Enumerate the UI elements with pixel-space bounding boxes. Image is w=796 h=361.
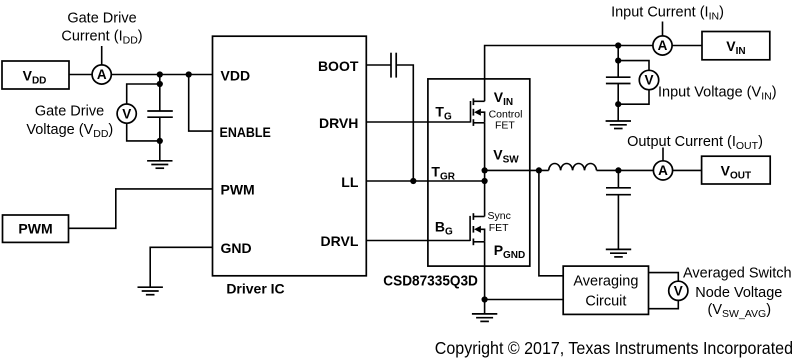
svg-text:V: V — [122, 106, 131, 121]
inductor L1 — [549, 163, 597, 170]
node dot input cap bottom — [615, 101, 621, 107]
wire voltmeter bottom branch — [127, 123, 160, 141]
power block CSD87335Q3D box — [428, 79, 530, 266]
voltmeter V (averaged switch node) — [669, 281, 688, 300]
wire label stub — [662, 148, 664, 161]
svg-text:Gate Drive: Gate Drive — [35, 104, 104, 120]
transistor Q2 sync FET — [470, 213, 485, 245]
svg-text:Averaging: Averaging — [573, 273, 638, 289]
wire PGND sense to averaging circuit — [485, 299, 564, 301]
ground (VDD cap) — [147, 161, 172, 168]
svg-text:CSD87335Q3D: CSD87335Q3D — [383, 272, 478, 289]
IC U1 Driver IC box — [213, 36, 367, 276]
svg-text:FET: FET — [495, 120, 515, 132]
label Sync FET — [488, 210, 511, 234]
svg-text:Copyright © 2017, Texas Instru: Copyright © 2017, Texas Instruments Inco… — [435, 338, 793, 358]
svg-text:Input Voltage (VIN): Input Voltage (VIN) — [658, 85, 777, 103]
svg-text:A: A — [658, 38, 668, 53]
wire ammeter to VOUT box — [673, 169, 702, 171]
wire VIN rail up — [485, 46, 653, 102]
label Gate Drive Voltage (VDD) — [26, 104, 113, 141]
ammeter A (output current) — [653, 161, 672, 180]
node dot input tap — [615, 42, 621, 48]
wire GND pin to ground — [150, 247, 212, 287]
label Control FET — [489, 108, 523, 131]
svg-text:Gate Drive: Gate Drive — [67, 11, 136, 27]
node dot voltmeter bottom tap — [157, 138, 163, 144]
node junction dot — [186, 71, 192, 77]
node dot boot-LL junction — [410, 178, 416, 184]
wire VSW out of block — [485, 169, 549, 171]
wire VDD box to ammeter — [69, 74, 92, 76]
box VOUT — [702, 156, 771, 184]
wire BOOT pin to capacitor — [366, 64, 391, 66]
svg-text:Node Voltage: Node Voltage — [695, 285, 782, 301]
ground (power block) — [472, 314, 497, 322]
wire LL to TGR — [366, 180, 484, 182]
wire input tap down — [617, 46, 619, 61]
node dot input cap top — [615, 58, 621, 64]
svg-text:GND: GND — [221, 240, 252, 256]
capacitor C2 (bootstrap) — [391, 53, 396, 78]
svg-text:A: A — [658, 163, 668, 178]
box VIN — [702, 32, 770, 60]
node junction dot — [157, 71, 163, 77]
capacitor C1 (VDD decoupling) — [147, 84, 173, 161]
wire ammeter to VIN box — [672, 45, 702, 47]
capacitor C3 (input) — [606, 61, 631, 121]
wire PGND rail down to ground — [484, 242, 486, 314]
wire ENABLE branch — [189, 75, 213, 132]
wire DRVH to TG gate — [366, 121, 470, 123]
wire internal switch rail — [484, 123, 486, 217]
ground (input cap) — [606, 121, 631, 129]
node dot PGND tap — [482, 296, 488, 302]
capacitor C4 (output) — [606, 170, 631, 249]
wire voltmeter top branch — [127, 84, 160, 104]
ground (driver GND) — [138, 287, 163, 295]
box averaging circuit — [563, 266, 648, 314]
wire ammeter to driver VDD pin — [111, 74, 212, 76]
svg-text:V: V — [674, 284, 683, 299]
wire label stub to ammeter — [101, 46, 103, 65]
ground (output cap) — [606, 249, 631, 257]
wire averaging to voltmeter top — [649, 273, 679, 282]
svg-text:DRVH: DRVH — [319, 115, 358, 131]
ammeter A (gate drive current) — [92, 65, 111, 84]
wire VSW sense to averaging circuit — [539, 170, 563, 275]
svg-text:Circuit: Circuit — [585, 293, 626, 309]
wire voltmeter input bottom branch — [618, 90, 649, 105]
svg-text:Control: Control — [489, 108, 523, 120]
source box VDD — [2, 61, 69, 89]
svg-text:ENABLE: ENABLE — [220, 124, 271, 140]
svg-text:PWM: PWM — [221, 182, 255, 198]
svg-text:Driver IC: Driver IC — [226, 281, 284, 297]
ammeter A (input current) — [653, 36, 672, 55]
node dot voltmeter top tap — [157, 81, 163, 87]
wire label stub — [662, 22, 664, 36]
svg-text:VDD: VDD — [221, 67, 251, 83]
wire voltmeter input top branch — [618, 61, 649, 71]
voltmeter V (gate drive voltage) — [117, 104, 136, 123]
svg-text:Sync: Sync — [488, 210, 511, 222]
svg-text:A: A — [97, 67, 107, 82]
node dot VSW — [482, 167, 488, 173]
wire DRVL to BG gate — [366, 240, 470, 242]
wire to voltmeter tap — [159, 75, 161, 85]
node dot VSW sense tap — [536, 167, 542, 173]
transistor Q1 control FET — [471, 98, 485, 126]
svg-text:PWM: PWM — [18, 221, 52, 237]
wire boot cap to LL — [396, 65, 413, 181]
svg-text:FET: FET — [489, 222, 509, 234]
wire PWM box to driver PWM pin — [69, 189, 213, 228]
svg-text:DRVL: DRVL — [321, 233, 359, 249]
label Averaged Switch Node Voltage (VSW_AVG) — [683, 266, 792, 321]
node dot TGR — [482, 178, 488, 184]
svg-text:BOOT: BOOT — [318, 58, 359, 74]
source box PWM — [3, 215, 69, 242]
label Gate Drive Current (IDD) — [61, 11, 142, 47]
voltmeter V (input voltage) — [639, 70, 658, 89]
node dot output cap tap — [615, 167, 621, 173]
wire averaging to voltmeter bottom — [649, 300, 679, 308]
svg-text:LL: LL — [341, 174, 359, 190]
svg-text:V: V — [644, 73, 653, 88]
svg-text:Input Current (IIN): Input Current (IIN) — [611, 4, 724, 22]
wire inductor to ammeter — [597, 169, 654, 171]
svg-text:Averaged Switch: Averaged Switch — [683, 266, 792, 282]
